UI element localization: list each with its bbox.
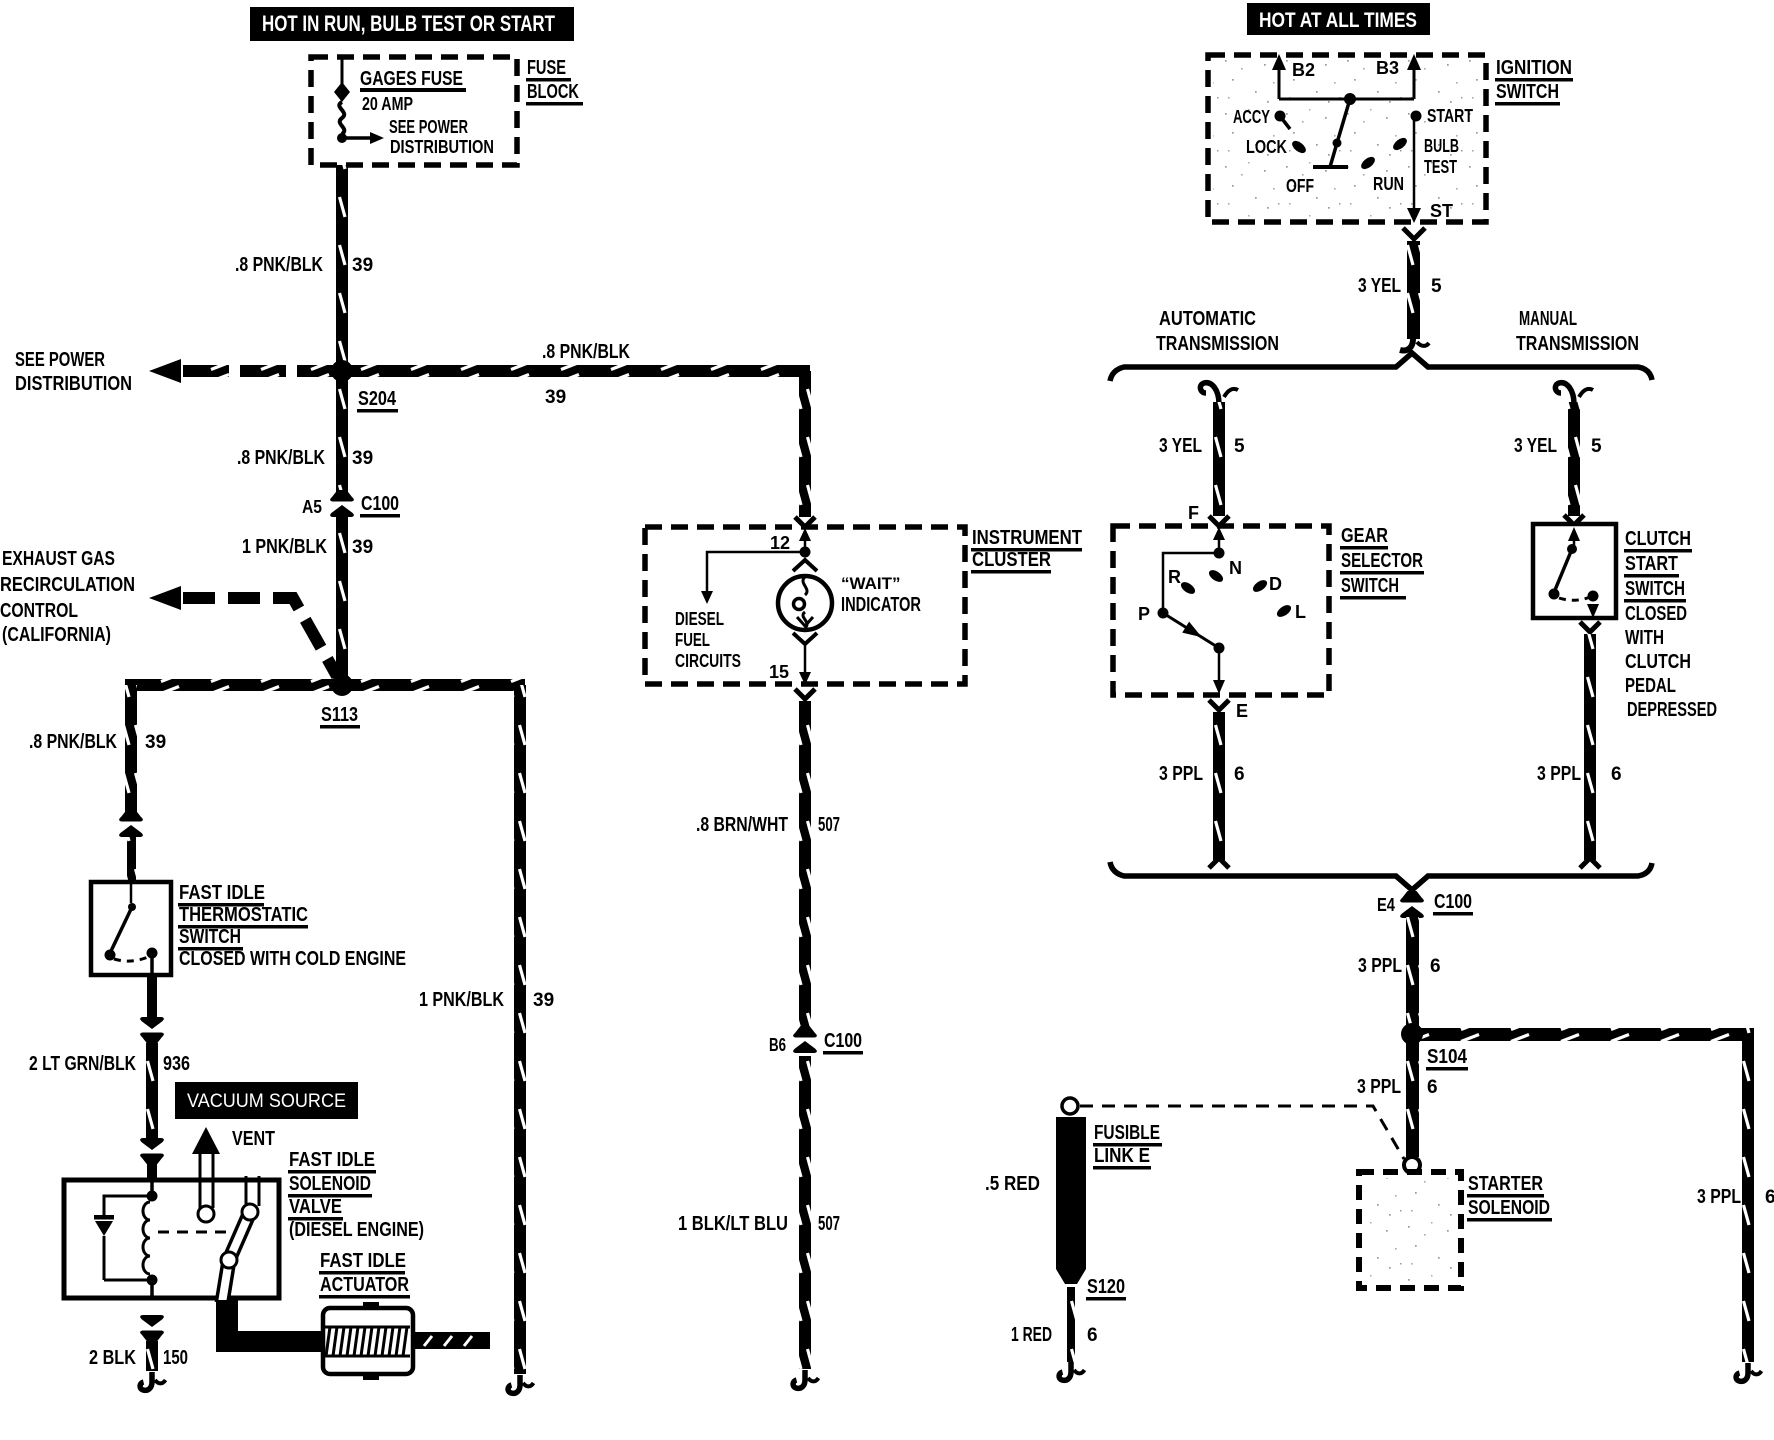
RIGHT COLUMN	[985, 3, 1774, 1381]
svg-text:3 PPL: 3 PPL	[1159, 763, 1203, 785]
contact ACCY	[1275, 111, 1286, 122]
svg-text:SWITCH: SWITCH	[1625, 578, 1685, 600]
svg-text:LINK E: LINK E	[1094, 1145, 1150, 1167]
MIDDLE COLUMN	[645, 371, 1082, 1388]
svg-text:5: 5	[1234, 436, 1245, 457]
brace (transmission split)	[1110, 353, 1652, 381]
svg-text:TEST: TEST	[1424, 157, 1457, 177]
svg-text:CLOSED: CLOSED	[1625, 603, 1687, 625]
svg-text:CLUTCH: CLUTCH	[1625, 651, 1691, 673]
pin 12 of instrument cluster	[799, 528, 811, 541]
svg-text:6: 6	[1611, 764, 1622, 785]
contact LOCK	[1290, 139, 1308, 156]
vent arrow and VENT label	[192, 1127, 220, 1154]
svg-text:CLUSTER: CLUSTER	[972, 549, 1051, 571]
wire to fast idle thermostatic switch	[127, 837, 136, 882]
svg-text:507: 507	[818, 1213, 840, 1235]
junction S104	[1401, 1023, 1423, 1045]
contact D	[1251, 578, 1269, 595]
svg-text:S104: S104	[1427, 1046, 1468, 1068]
gear selector rotor arm	[1163, 613, 1219, 648]
svg-text:SEE POWER: SEE POWER	[389, 117, 468, 137]
svg-text:39: 39	[533, 990, 554, 1011]
svg-text:FAST IDLE: FAST IDLE	[320, 1250, 406, 1272]
wire to diesel fuel circuits	[707, 552, 805, 592]
svg-text:5: 5	[1591, 436, 1602, 457]
svg-text:39: 39	[352, 448, 373, 469]
wire .8 PNK/BLK 39 (fuse to S204)	[336, 165, 348, 371]
svg-text:MANUAL: MANUAL	[1519, 308, 1577, 330]
switch: clutch start switch	[1564, 515, 1584, 525]
svg-text:150: 150	[163, 1347, 188, 1369]
switch: fast idle thermostatic switch	[91, 882, 171, 975]
svg-text:OFF: OFF	[1286, 176, 1314, 196]
svg-text:SEE POWER: SEE POWER	[15, 349, 105, 371]
svg-text:SWITCH: SWITCH	[179, 926, 241, 948]
svg-text:C100: C100	[361, 493, 399, 515]
svg-text:DIESEL: DIESEL	[675, 609, 724, 629]
svg-text:(DIESEL ENGINE): (DIESEL ENGINE)	[289, 1219, 424, 1241]
svg-text:.8 PNK/BLK: .8 PNK/BLK	[29, 731, 117, 753]
wire 1 PNK/BLK 39 (S113 right leg)	[514, 685, 526, 1374]
svg-text:EXHAUST GAS: EXHAUST GAS	[2, 548, 115, 570]
svg-text:2 BLK: 2 BLK	[89, 1347, 136, 1369]
wire 3 PPL 6 (right page edge down)	[1742, 1028, 1754, 1362]
svg-text:F: F	[1188, 503, 1199, 523]
svg-text:6: 6	[1765, 1187, 1774, 1208]
svg-text:GEAR: GEAR	[1341, 525, 1388, 547]
wire .8 PNK/BLK 39 (S204 to instrument cluster)	[342, 365, 810, 377]
svg-text:TRANSMISSION: TRANSMISSION	[1156, 333, 1279, 355]
fuse block box (dashed)	[311, 57, 517, 165]
wire B2-B3 bus and junction	[1279, 98, 1414, 101]
solenoid coil and clamping diode	[150, 1180, 154, 1196]
svg-text:S113: S113	[321, 704, 358, 726]
svg-text:TRANSMISSION: TRANSMISSION	[1516, 333, 1639, 355]
svg-text:1 RED: 1 RED	[1011, 1324, 1052, 1346]
svg-text:ACCY: ACCY	[1233, 107, 1270, 127]
svg-text:STARTER: STARTER	[1468, 1173, 1543, 1195]
svg-text:DEPRESSED: DEPRESSED	[1627, 699, 1717, 721]
lamp: WAIT indicator bulb	[793, 560, 817, 571]
wire 1 PNK/BLK 39 (C100 to S113)	[336, 517, 348, 685]
svg-text:E4: E4	[1377, 895, 1395, 915]
svg-text:3 YEL: 3 YEL	[1514, 435, 1557, 457]
junction S204	[331, 360, 353, 382]
svg-text:FAST IDLE: FAST IDLE	[179, 882, 265, 904]
connector C100 pin E4	[1400, 891, 1424, 918]
svg-text:CLUTCH: CLUTCH	[1625, 528, 1691, 550]
fusible link E	[1062, 1098, 1078, 1114]
contact P	[1158, 608, 1169, 619]
svg-text:GAGES FUSE: GAGES FUSE	[360, 68, 463, 90]
svg-text:.8 PNK/BLK: .8 PNK/BLK	[542, 341, 630, 363]
svg-text:FUEL: FUEL	[675, 630, 710, 650]
wire to exhaust gas recirculation control (dashed arrow)	[149, 586, 181, 610]
svg-text:HOT IN RUN, BULB TEST OR START: HOT IN RUN, BULB TEST OR START	[262, 11, 555, 36]
label GAGES FUSE / 20 AMP / SEE POWER DISTRIBUTION	[370, 132, 384, 144]
svg-text:(CALIFORNIA): (CALIFORNIA)	[2, 624, 111, 646]
banner HOT IN RUN, BULB TEST OR START	[250, 7, 574, 41]
svg-text:FAST IDLE: FAST IDLE	[289, 1149, 375, 1171]
svg-text:FUSE: FUSE	[527, 57, 566, 79]
svg-text:1 PNK/BLK: 1 PNK/BLK	[419, 989, 504, 1011]
wire (dashed) fusible link to starter solenoid terminal	[1080, 1106, 1404, 1159]
wire 3 PPL 6 (S104 to starter solenoid)	[1406, 1041, 1419, 1157]
svg-text:.8 PNK/BLK: .8 PNK/BLK	[237, 447, 325, 469]
svg-text:VENT: VENT	[232, 1128, 275, 1150]
svg-text:3 PPL: 3 PPL	[1358, 955, 1402, 977]
svg-text:CLOSED WITH COLD ENGINE: CLOSED WITH COLD ENGINE	[179, 948, 406, 970]
svg-text:3 YEL: 3 YEL	[1358, 275, 1401, 297]
svg-text:SWITCH: SWITCH	[1496, 81, 1559, 103]
wire 3 PPL 6 (pin E of gear selector down)	[1209, 700, 1229, 710]
contact RUN	[1359, 155, 1377, 172]
ignition switch box	[1213, 60, 1481, 217]
connector (inline, left leg)	[119, 810, 143, 837]
svg-text:S120: S120	[1087, 1276, 1125, 1298]
svg-text:C100: C100	[824, 1030, 862, 1052]
svg-text:“WAIT”: “WAIT”	[841, 574, 901, 593]
wire 3 PPL 6 (C100 to S104)	[1406, 917, 1419, 1029]
svg-text:SOLENOID: SOLENOID	[1468, 1197, 1550, 1219]
svg-text:DISTRIBUTION: DISTRIBUTION	[390, 137, 494, 157]
svg-text:INDICATOR: INDICATOR	[841, 594, 921, 616]
connector C100 pin B6	[793, 1026, 817, 1053]
svg-text:6: 6	[1430, 956, 1441, 977]
svg-text:507: 507	[818, 814, 840, 836]
svg-text:CIRCUITS: CIRCUITS	[675, 651, 741, 671]
svg-text:3 PPL: 3 PPL	[1697, 1186, 1741, 1208]
ignition switch rotor	[1337, 99, 1350, 143]
svg-text:SELECTOR: SELECTOR	[1341, 550, 1423, 572]
svg-text:S204: S204	[358, 388, 397, 410]
svg-text:ST: ST	[1430, 201, 1453, 221]
svg-text:2 LT GRN/BLK: 2 LT GRN/BLK	[29, 1053, 136, 1075]
svg-text:1 BLK/LT BLU: 1 BLK/LT BLU	[678, 1213, 788, 1235]
wire 3 YEL 5 (ignition switch ST down)	[1403, 228, 1425, 239]
svg-text:20 AMP: 20 AMP	[362, 94, 413, 114]
starter solenoid terminal and box	[1404, 1157, 1420, 1173]
instrument cluster box	[645, 527, 965, 684]
svg-text:L: L	[1295, 602, 1306, 622]
svg-text:6: 6	[1087, 1325, 1098, 1346]
svg-text:12: 12	[770, 533, 790, 553]
svg-text:B6: B6	[769, 1035, 786, 1055]
svg-text:AUTOMATIC: AUTOMATIC	[1159, 308, 1256, 330]
svg-text:39: 39	[545, 387, 566, 408]
svg-text:SWITCH: SWITCH	[1341, 575, 1399, 597]
svg-text:39: 39	[352, 255, 373, 276]
svg-text:6: 6	[1234, 764, 1245, 785]
connector A5 C100	[330, 490, 354, 517]
svg-text:BLOCK: BLOCK	[527, 81, 579, 103]
svg-text:WITH: WITH	[1625, 627, 1664, 649]
svg-text:1 PNK/BLK: 1 PNK/BLK	[242, 536, 327, 558]
wire .8 PNK/BLK 39 (S204 to C100)	[336, 377, 348, 493]
diode CR1	[94, 1215, 114, 1220]
wire 3 YEL 5 (automatic transmission branch)	[1200, 383, 1219, 404]
svg-text:D: D	[1269, 574, 1282, 594]
svg-text:START: START	[1427, 106, 1473, 126]
svg-text:C100: C100	[1434, 891, 1472, 913]
svg-text:R: R	[1168, 567, 1181, 587]
wire 1 RED 6 (S120 down)	[1067, 1287, 1075, 1362]
svg-text:RUN: RUN	[1373, 174, 1404, 194]
svg-text:6: 6	[1427, 1077, 1438, 1098]
brace (transmission merge)	[1110, 862, 1652, 890]
svg-text:A5: A5	[302, 497, 322, 517]
LEFT COLUMN	[0, 7, 810, 1393]
svg-text:5: 5	[1431, 276, 1442, 297]
solenoid: fast idle solenoid valve (diesel engine)	[64, 1180, 279, 1298]
svg-text:PEDAL: PEDAL	[1625, 675, 1676, 697]
terminal ST	[1413, 116, 1416, 209]
svg-text:VALVE: VALVE	[289, 1196, 342, 1218]
wire .8 PNK/BLK 39 (S113 left leg)	[125, 685, 137, 813]
vacuum tube elbow to actuator	[216, 1300, 321, 1352]
svg-text:CONTROL: CONTROL	[0, 600, 78, 622]
svg-text:START: START	[1625, 553, 1678, 575]
coil L1	[143, 1202, 150, 1274]
svg-text:IGNITION: IGNITION	[1496, 57, 1572, 79]
svg-text:INSTRUMENT: INSTRUMENT	[972, 527, 1082, 549]
wire .8 PNK/BLK 39 (down into instrument cluster)	[799, 371, 811, 517]
svg-text:B2: B2	[1292, 60, 1315, 80]
contact START	[1411, 111, 1422, 122]
svg-text:RECIRCULATION: RECIRCULATION	[0, 574, 135, 596]
svg-text:.8 PNK/BLK: .8 PNK/BLK	[235, 254, 323, 276]
svg-text:LOCK: LOCK	[1246, 137, 1287, 157]
svg-text:VACUUM SOURCE: VACUUM SOURCE	[187, 1091, 346, 1112]
switch: gear selector switch	[1113, 526, 1329, 695]
svg-text:HOT AT ALL TIMES: HOT AT ALL TIMES	[1259, 9, 1417, 32]
svg-text:SOLENOID: SOLENOID	[289, 1173, 371, 1195]
svg-text:.5 RED: .5 RED	[985, 1173, 1040, 1195]
svg-text:936: 936	[163, 1053, 190, 1075]
svg-text:BULB: BULB	[1424, 136, 1459, 156]
svg-text:B3: B3	[1376, 58, 1399, 78]
wire 3 PPL 6 (clutch start switch down)	[1580, 622, 1600, 632]
contact BULB TEST	[1391, 136, 1409, 153]
wire 2 LT GRN/BLK 936 (switch to solenoid valve)	[147, 975, 157, 1017]
svg-text:39: 39	[145, 732, 166, 753]
junction S113	[331, 674, 353, 696]
fuse F1 GAGES FUSE 20 AMP	[341, 59, 344, 85]
valve plunger and pivot	[245, 1176, 248, 1206]
terminal B3	[1413, 66, 1416, 99]
banner HOT AT ALL TIMES	[1247, 3, 1430, 35]
pin 15 of instrument cluster	[804, 644, 807, 673]
svg-text:ACTUATOR: ACTUATOR	[320, 1274, 409, 1296]
wire end (to glow plug circuit)	[793, 1370, 818, 1388]
svg-text:.8 BRN/WHT: .8 BRN/WHT	[696, 814, 788, 836]
contact R	[1179, 580, 1197, 597]
wire .8 BRN/WHT 507 (cluster to B6 C100)	[795, 689, 815, 699]
banner VACUUM SOURCE	[175, 1082, 358, 1119]
wire 1 BLK/LT BLU 507	[799, 1056, 811, 1369]
contact N	[1207, 568, 1225, 585]
svg-text:3 YEL: 3 YEL	[1159, 435, 1202, 457]
wire 3 PPL 6 (S104 to right page edge)	[1412, 1028, 1754, 1041]
svg-text:3 PPL: 3 PPL	[1537, 763, 1581, 785]
wire 3 YEL 5 (manual transmission branch)	[1555, 383, 1574, 404]
svg-text:P: P	[1138, 604, 1150, 624]
svg-text:39: 39	[352, 537, 373, 558]
svg-text:FUSIBLE: FUSIBLE	[1094, 1122, 1160, 1144]
svg-text:DISTRIBUTION: DISTRIBUTION	[15, 373, 132, 395]
contact L	[1275, 603, 1293, 620]
terminal B2	[1278, 66, 1281, 99]
wire S113 horizontal branch	[125, 679, 525, 691]
svg-text:THERMOSTATIC: THERMOSTATIC	[179, 904, 308, 926]
svg-text:3 PPL: 3 PPL	[1357, 1076, 1401, 1098]
svg-text:15: 15	[769, 662, 789, 682]
svg-text:N: N	[1229, 558, 1242, 578]
svg-text:E: E	[1236, 701, 1248, 721]
wire 2 BLK 150 (valve to ground splice)	[140, 1315, 164, 1342]
pin F and gear selector contacts	[1209, 516, 1229, 526]
